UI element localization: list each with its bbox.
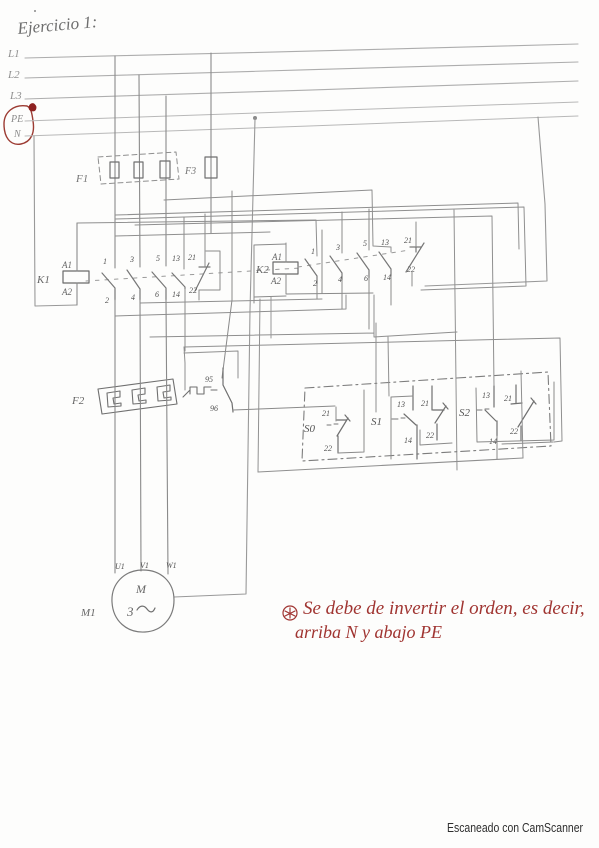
wire feed S1 13 [388,337,389,396]
svg-text:U1: U1 [115,562,125,571]
contact K2 3-4 [330,256,342,280]
wire return W9a to control box [184,338,562,442]
svg-text:22: 22 [510,427,518,436]
svg-text:21: 21 [421,399,429,408]
fuse F3 [205,157,217,178]
wire K2 22 down [411,272,413,286]
svg-text:13: 13 [482,391,490,400]
svg-text:arriba N y abajo PE: arriba N y abajo PE [295,622,442,642]
svg-text:2: 2 [313,279,317,288]
svg-text:96: 96 [210,404,218,413]
wire loop around S1 [391,396,452,459]
contact S2 21-22 NC [511,385,536,440]
wire bus L2 [25,62,578,78]
svg-text:14: 14 [404,436,412,445]
red circle around PE and N [4,106,34,145]
wire horizontal W3 [115,207,526,290]
svg-text:4: 4 [338,275,342,284]
heater element a [107,391,121,407]
wire loop around K2 coil [254,244,286,303]
overload trip symbol [183,387,217,397]
wire horizontal W4 to S2 [135,216,494,386]
wire K1 22 return W6 [140,299,322,303]
svg-text:S1: S1 [371,416,382,428]
svg-text:3: 3 [335,243,340,252]
junction dot on PE bus [253,116,257,120]
wire W phase overload to motor [166,300,168,574]
wire loop S2 bottom [502,442,553,444]
contact K1 5-6 [152,272,166,300]
svg-text:A2: A2 [270,276,281,286]
svg-text:2: 2 [105,296,109,305]
contact S2 13-14 NO [485,386,497,436]
wire to K2 5 [368,209,370,250]
wire N drop right side to K2 contact 22 [425,117,547,286]
wire N to K1 coil A2 [34,136,77,306]
wire L1 drop to fuse F1a and contact K1-1 [114,56,116,268]
svg-text:13: 13 [172,254,180,263]
wire S2 14 to bottom [496,436,498,459]
svg-text:A1: A1 [271,252,282,262]
svg-text:Ejercicio 1:: Ejercicio 1: [16,12,98,38]
wire K1 coil A1 up [76,223,78,271]
wire K2 coil A2 down and return [286,230,373,294]
motor M1 circle [112,570,174,632]
svg-text:13: 13 [397,400,405,409]
svg-text:N: N [13,129,22,140]
coil K2 [273,262,298,274]
wire S0 bottom to loop [338,390,364,453]
svg-text:W1: W1 [166,561,177,570]
contact K2 13-14 [379,252,391,276]
svg-text:22: 22 [407,265,415,274]
wire bus PE [25,102,578,121]
wire return W8 [150,295,457,337]
S1 actuator dashes [392,418,405,419]
wire K1 coil A2 down [76,283,78,305]
wire to K2 21 [415,222,417,246]
wire return W7 [115,295,346,316]
wire K2 6 down [368,278,370,329]
svg-text:S2: S2 [459,407,471,419]
svg-text:4: 4 [131,293,135,302]
svg-text:6: 6 [155,290,159,299]
wire to contact K1 13 [183,217,185,269]
K2 linkage dashed line [298,250,410,267]
wire horizontal W1 [164,190,391,252]
svg-text:21: 21 [504,394,512,403]
wire to K2 3 [341,212,343,253]
overload relay F2 body [98,379,177,414]
pencil speck above title [34,10,36,12]
heater element c [157,385,171,401]
svg-text:M: M [135,582,147,596]
fuse F1b [134,162,143,178]
red blob mark [29,104,36,111]
wire bus N [25,116,578,136]
motor tilde [137,606,155,612]
svg-text:PE: PE [10,114,23,125]
svg-text:1: 1 [311,247,315,256]
red note asterisk [283,606,297,620]
svg-text:14: 14 [172,290,180,299]
wire K1 14 down [184,289,186,351]
contact K1 1-2 [102,273,115,300]
contact S1 13-14 NO [404,386,417,459]
fuse F1c [160,161,170,178]
wire L3 drop to fuse F1c and contact K1-5 [165,96,167,266]
svg-text:3: 3 [126,604,134,619]
wire 96 corner down to S0 [335,407,337,421]
wire K2 4 down [341,280,343,309]
svg-text:6: 6 [364,274,368,283]
svg-text:L2: L2 [7,69,20,81]
svg-text:A2: A2 [61,287,72,297]
heater element b [132,388,146,404]
wire control from F3 area to 95 contact [222,191,232,378]
K1 linkage dashed line [86,268,300,281]
svg-text:Se debe de invertir el orden,: Se debe de invertir el orden, es decir, [303,598,585,619]
control station dash-dot enclosure [302,372,551,461]
contact F2 95-96 [223,368,233,412]
contact S1 21-22 NC [432,386,448,440]
svg-text:A1: A1 [61,260,72,270]
svg-text:L1: L1 [7,48,20,60]
svg-text:21: 21 [322,409,330,418]
wire K2 2 down [316,284,318,299]
wire bottom right riser [521,371,523,458]
svg-text:22: 22 [324,444,332,453]
contact K1 13-14 [172,273,185,289]
svg-text:Escaneado con CamScanner: Escaneado con CamScanner [447,821,583,835]
wire U phase overload to motor [114,300,116,573]
wire K2 14 down [390,276,392,305]
svg-text:14: 14 [383,273,391,282]
wire left edge down to overload symbol [184,347,185,390]
svg-text:F1: F1 [75,173,88,185]
wire L2 drop to fuse F1b and contact K1-3 [139,75,140,267]
svg-text:M1: M1 [80,607,96,619]
svg-text:22: 22 [426,431,434,440]
fuse F1a [110,162,119,178]
wire PE drop to motor frame [174,119,255,597]
wire return W9b [184,351,238,378]
contact S0 21-22 NC [337,415,350,453]
svg-text:21: 21 [188,253,196,262]
wire loop around S2 [476,382,554,442]
wire bottom return [258,458,523,472]
svg-text:13: 13 [381,238,389,247]
svg-text:22: 22 [189,286,197,295]
svg-text:F3: F3 [184,166,196,177]
wire K2 coil A1 up [285,243,287,262]
contact K1 21-22 NC [195,263,210,291]
fuse group F1 dashed enclosure [98,152,179,184]
wire bus L3 [25,81,578,99]
S0 actuator [327,424,338,425]
contact K1 3-4 [127,270,140,300]
wire right vertical to control box [454,210,457,470]
svg-text:3: 3 [129,255,134,264]
wire to contact K1 21 [204,214,206,266]
contact K2 21-22 NC [406,243,424,272]
wire feed S1 [375,323,377,412]
svg-text:5: 5 [363,239,367,248]
svg-text:5: 5 [156,254,160,263]
wire loop at K1 21-22 [199,251,220,300]
wire K1 coil A1 to K2 contact 1 [77,220,317,256]
S2 actuator dashes [477,409,489,410]
svg-text:21: 21 [404,236,412,245]
svg-text:V1: V1 [140,561,149,570]
wire V phase overload to motor [140,300,141,571]
wire N return vertical mid [258,299,260,472]
contact K2 5-6 [357,253,369,278]
wire stub mid [270,297,272,338]
wire L1 drop to control fuse F3 [210,53,212,233]
svg-text:1: 1 [103,257,107,266]
svg-text:L3: L3 [9,90,22,102]
contact K2 1-2 [305,259,317,284]
coil K1 [63,271,89,283]
wire bus L1 [25,44,578,58]
wire horizontal W2 [115,203,519,249]
svg-text:S0: S0 [304,423,316,435]
svg-text:K2: K2 [255,264,269,276]
wire horizontal W10 [115,232,270,236]
svg-text:F2: F2 [71,395,85,407]
wire 96 to S0 [233,406,335,410]
svg-text:95: 95 [205,375,213,384]
svg-text:K1: K1 [36,274,50,286]
